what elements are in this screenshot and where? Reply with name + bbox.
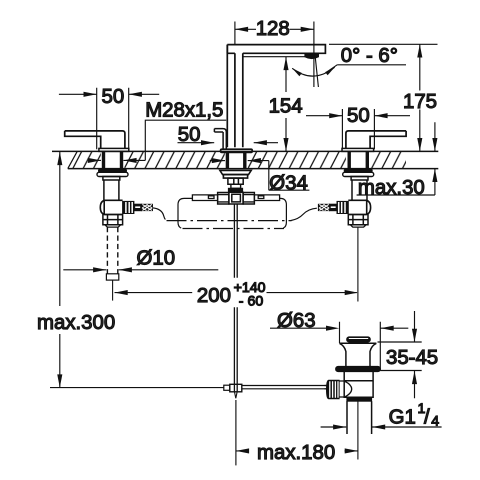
dim 154 [283,57,288,151]
left supply pipe centerline [112,280,114,301]
center dark band [228,188,242,192]
right valve flange black [344,169,372,172]
pop-up pull rod knob [214,129,226,150]
swivel arc [291,58,336,88]
tee hex left [218,193,229,205]
svg-text:50: 50 [347,105,370,127]
left valve shank in deck [104,151,122,169]
dim 50 center pullrod [178,140,279,145]
spout underside lip [243,56,305,58]
svg-text:M28x1,5: M28x1,5 [145,99,223,121]
svg-text:Ø34: Ø34 [269,172,308,194]
left hose knurl fitting [123,201,134,213]
dim max180 [236,400,358,465]
dim max30 [357,122,438,195]
pop-up rod tip [234,392,237,399]
center flange [220,170,251,174]
waste funnel [339,343,376,366]
spout aerator outlet [305,54,319,59]
left hose braid [141,204,152,211]
left valve elbow [100,200,122,214]
dim max300 [57,152,62,388]
spout column [227,45,243,148]
waste tailpipe centerline [357,397,359,459]
hose left curve [153,208,166,220]
svg-text:50: 50 [178,124,201,146]
right valve taper [350,225,366,227]
waste body [344,372,373,398]
spout top bar [227,45,325,54]
left valve flange nut [97,172,128,176]
right supply centerline down to waste [357,227,359,301]
svg-text:50: 50 [102,86,125,108]
left handle lever [65,131,125,149]
waste knurl nut [327,380,340,398]
tee body [229,192,243,204]
svg-text:128: 128 [256,18,290,40]
center block B [231,184,241,188]
tee hex right [243,193,254,205]
svg-text:200: 200 [197,285,231,307]
right valve body [351,177,368,201]
label diam34 [210,158,310,190]
svg-text:max.180: max.180 [257,442,335,464]
right handle lever [346,131,406,149]
waste rod stub [325,386,327,389]
waste seal flange [336,366,381,371]
hose loop outer solid sides [178,198,286,228]
countertop top line [52,150,438,152]
svg-text:Ø63: Ø63 [277,310,316,332]
waste plug cap [347,337,371,342]
horizontal lever rod [242,386,328,389]
countertop cut edge left [68,151,77,168]
svg-text:4: 4 [431,413,439,429]
svg-text:35-45: 35-45 [386,347,438,369]
left valve flange black [99,169,127,172]
hose dash-dot middle [167,220,292,222]
left valve coupling nut [103,215,123,225]
left hose collar [134,204,142,211]
left valve body [103,177,120,201]
waste tailpipe [347,401,372,434]
pop-up rod vertical [234,204,237,392]
left supply pipe collar [106,274,118,280]
right hose collar [330,204,338,211]
left supply pipe dashed [107,227,117,274]
svg-text:max.30: max.30 [358,177,425,199]
center nut [223,175,247,179]
svg-text:175: 175 [403,91,437,113]
hose right curve [291,208,317,220]
center shank in deck [227,151,244,168]
right valve coupling nut [348,215,368,225]
dim diam10 [63,267,218,272]
countertop bottom line [68,168,439,170]
rod joint block [230,384,242,392]
left valve taper [105,225,121,227]
spout escutcheon [221,149,253,152]
dim 50 right [306,109,410,149]
dim 50 left [59,88,159,150]
right valve shank in deck [349,151,367,169]
rod joint small [224,385,230,390]
svg-text:154: 154 [269,95,303,117]
dim 175 [329,44,438,151]
tee pipe right [254,195,279,201]
right handle plinth [342,148,374,151]
dim diam63 [270,322,408,371]
hose loop outer bottom dash-dot [183,228,285,230]
svg-text:0° - 6°: 0° - 6° [341,45,398,67]
label M28x1,5 [88,120,226,163]
dim 128 [235,22,314,58]
dim G1 1/4 [321,424,442,429]
right valve elbow [348,200,370,214]
lever rod extension line [50,387,224,389]
right hose braid [318,204,329,211]
svg-text:/: / [424,407,430,429]
svg-text:Ø10: Ø10 [137,248,176,270]
right hose knurl fitting [337,201,348,213]
center block A [228,178,243,184]
svg-text:G1: G1 [389,407,416,429]
dim 35-45 [378,311,422,398]
countertop hatch section [67,151,406,169]
dim 200 +140 -60 [115,290,358,295]
tee pipe left [192,195,217,201]
svg-text:- 60: - 60 [239,293,264,309]
waste coupling black [347,398,372,401]
waste lever boss [339,381,352,397]
right valve flange nut [343,172,374,176]
svg-text:max.300: max.300 [37,312,115,334]
left handle plinth [99,148,129,151]
dim 0-6 deg label [327,65,406,72]
